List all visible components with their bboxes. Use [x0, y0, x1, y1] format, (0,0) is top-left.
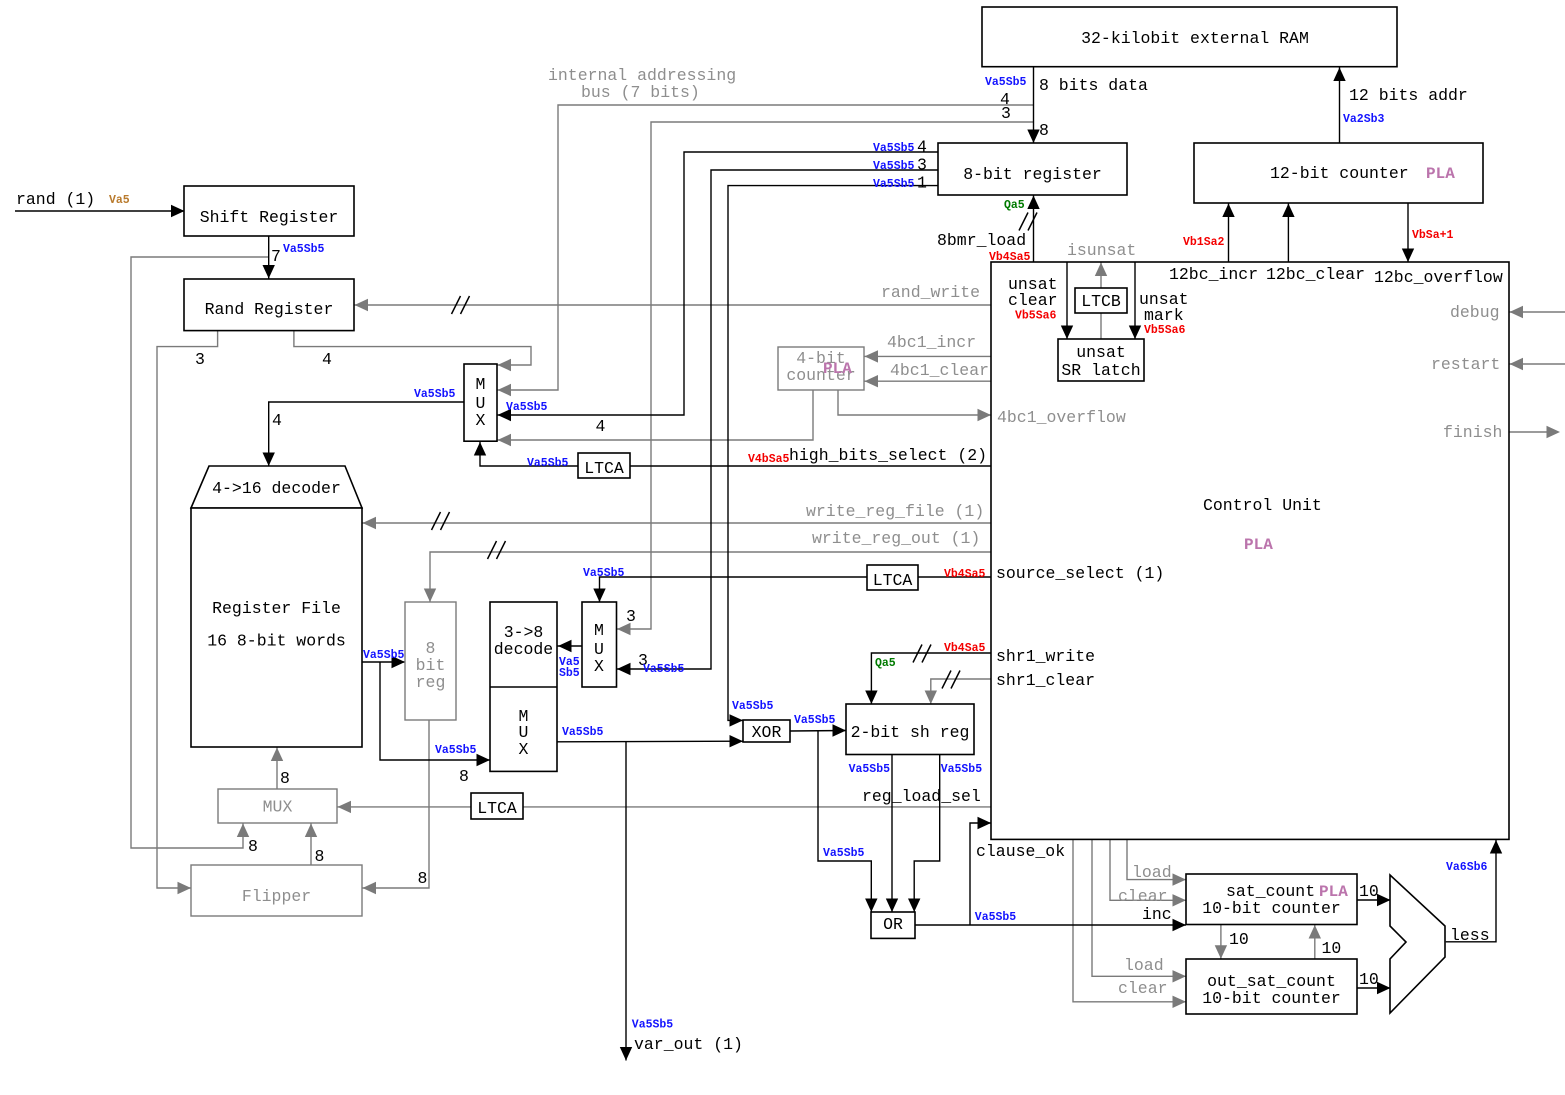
svg-text:10-bit counter: 10-bit counter	[1202, 989, 1341, 1008]
svg-text:Vb4Sa5: Vb4Sa5	[989, 251, 1031, 264]
svg-text:Vb5Sa6: Vb5Sa6	[1015, 310, 1057, 323]
svg-text:Vb1Sa2: Vb1Sa2	[1183, 236, 1225, 249]
svg-text:Sb5: Sb5	[559, 667, 580, 680]
svg-text:4: 4	[596, 417, 606, 436]
svg-text:mark: mark	[1144, 306, 1184, 325]
svg-text:Flipper: Flipper	[242, 887, 311, 906]
svg-text:less: less	[1450, 926, 1490, 945]
svg-text:4: 4	[322, 350, 332, 369]
svg-text:V4bSa5: V4bSa5	[748, 453, 790, 466]
svg-text:Va5Sb5: Va5Sb5	[414, 388, 456, 401]
svg-text:rand_write: rand_write	[881, 283, 980, 302]
svg-text:8-bit register: 8-bit register	[963, 165, 1102, 184]
svg-text:Shift Register: Shift Register	[200, 208, 339, 227]
svg-text:4bc1_overflow: 4bc1_overflow	[997, 408, 1126, 427]
svg-text:4bc1_incr: 4bc1_incr	[887, 333, 976, 352]
svg-text:LTCB: LTCB	[1081, 292, 1121, 311]
svg-text:Va5: Va5	[109, 194, 130, 207]
svg-text:inc: inc	[1142, 905, 1172, 924]
svg-text:4->16 decoder: 4->16 decoder	[212, 479, 341, 498]
svg-text:LTCA: LTCA	[477, 799, 517, 818]
svg-text:var_out (1): var_out (1)	[634, 1035, 743, 1054]
svg-text:write_reg_out (1): write_reg_out (1)	[812, 529, 980, 548]
svg-text:Va5Sb5: Va5Sb5	[506, 401, 548, 414]
svg-text:Va5Sb5: Va5Sb5	[941, 763, 983, 776]
svg-text:3: 3	[626, 607, 636, 626]
svg-text:3: 3	[1001, 104, 1011, 123]
svg-text:4: 4	[272, 411, 282, 430]
svg-text:Va5Sb5: Va5Sb5	[562, 726, 604, 739]
svg-text:PLA: PLA	[823, 360, 852, 378]
svg-text:Va5Sb5: Va5Sb5	[873, 178, 915, 191]
svg-text:XOR: XOR	[752, 723, 782, 742]
svg-text:Control Unit: Control Unit	[1203, 496, 1322, 515]
svg-text:isunsat: isunsat	[1067, 241, 1136, 260]
svg-text:PLA: PLA	[1244, 536, 1273, 554]
svg-text:clear: clear	[1118, 979, 1168, 998]
svg-text:32-kilobit external RAM: 32-kilobit external RAM	[1081, 29, 1309, 48]
svg-text:unsat: unsat	[1076, 343, 1126, 362]
svg-text:Vb4Sa5: Vb4Sa5	[944, 642, 986, 655]
svg-text:10: 10	[1359, 882, 1379, 901]
svg-text:LTCA: LTCA	[584, 459, 624, 478]
svg-text:8: 8	[315, 847, 325, 866]
svg-text:8: 8	[280, 769, 290, 788]
svg-text:X: X	[519, 740, 529, 759]
svg-text:restart: restart	[1431, 355, 1500, 374]
svg-text:8: 8	[418, 869, 428, 888]
svg-text:Rand Register: Rand Register	[205, 300, 334, 319]
svg-text:Register File: Register File	[212, 599, 341, 618]
svg-text:Va5Sb5: Va5Sb5	[632, 1019, 674, 1032]
svg-text:bus (7 bits): bus (7 bits)	[581, 83, 700, 102]
svg-text:M: M	[594, 621, 604, 640]
svg-text:shr1_clear: shr1_clear	[996, 671, 1095, 690]
svg-text:Va5Sb5: Va5Sb5	[849, 763, 891, 776]
svg-text:Va5Sb5: Va5Sb5	[794, 714, 836, 727]
svg-text:reg_load_sel: reg_load_sel	[862, 787, 981, 806]
svg-text:4: 4	[917, 138, 927, 157]
svg-text:2-bit sh reg: 2-bit sh reg	[851, 723, 970, 742]
svg-text:4bc1_clear: 4bc1_clear	[890, 361, 989, 380]
svg-text:3: 3	[195, 350, 205, 369]
svg-text:Va5Sb5: Va5Sb5	[363, 649, 405, 662]
svg-text:X: X	[476, 411, 486, 430]
svg-text:8 bits data: 8 bits data	[1039, 76, 1148, 95]
svg-text:Va6Sb6: Va6Sb6	[1446, 861, 1488, 874]
svg-text:Vb5Sa6: Vb5Sa6	[1144, 324, 1186, 337]
svg-text:X: X	[594, 657, 604, 676]
svg-text:rand (1): rand (1)	[16, 190, 95, 209]
svg-text:Va5Sb5: Va5Sb5	[527, 457, 569, 470]
svg-text:SR latch: SR latch	[1061, 361, 1140, 380]
svg-text:OR: OR	[883, 915, 903, 934]
svg-text:7: 7	[271, 247, 281, 266]
svg-text:Va5Sb5: Va5Sb5	[435, 744, 477, 757]
svg-text:M: M	[476, 375, 486, 394]
svg-text:decode: decode	[494, 640, 553, 659]
svg-text:Va2Sb3: Va2Sb3	[1343, 113, 1385, 126]
svg-text:10: 10	[1322, 939, 1342, 958]
svg-text:8: 8	[459, 767, 469, 786]
svg-text:finish: finish	[1443, 423, 1502, 442]
svg-text:load: load	[1132, 863, 1172, 882]
svg-text:write_reg_file (1): write_reg_file (1)	[806, 502, 984, 521]
svg-text:12bc_incr: 12bc_incr	[1169, 265, 1258, 284]
svg-text:12-bit counter: 12-bit counter	[1270, 164, 1409, 183]
svg-text:Va5Sb5: Va5Sb5	[583, 567, 625, 580]
svg-text:Qa5: Qa5	[875, 657, 896, 670]
svg-text:clear: clear	[1008, 291, 1058, 310]
svg-text:Va5Sb5: Va5Sb5	[643, 663, 685, 676]
svg-text:PLA: PLA	[1426, 165, 1455, 183]
svg-text:Qa5: Qa5	[1004, 199, 1025, 212]
svg-text:Va5Sb5: Va5Sb5	[823, 847, 865, 860]
svg-text:Va5Sb5: Va5Sb5	[732, 700, 774, 713]
svg-text:12 bits addr: 12 bits addr	[1349, 86, 1468, 105]
svg-text:10: 10	[1359, 970, 1379, 989]
svg-text:Va5Sb5: Va5Sb5	[985, 76, 1027, 89]
svg-text:3: 3	[917, 156, 927, 175]
svg-text:Va5Sb5: Va5Sb5	[873, 142, 915, 155]
svg-text:Va5Sb5: Va5Sb5	[975, 911, 1017, 924]
svg-text:shr1_write: shr1_write	[996, 647, 1095, 666]
svg-text:LTCA: LTCA	[873, 571, 913, 590]
svg-text:8: 8	[248, 837, 258, 856]
svg-text:load: load	[1124, 956, 1164, 975]
svg-text:MUX: MUX	[263, 798, 293, 817]
svg-text:Va5Sb5: Va5Sb5	[283, 243, 325, 256]
svg-text:10: 10	[1229, 930, 1249, 949]
svg-text:Va5Sb5: Va5Sb5	[873, 160, 915, 173]
svg-text:16 8-bit words: 16 8-bit words	[207, 632, 346, 651]
svg-text:10-bit counter: 10-bit counter	[1202, 899, 1341, 918]
svg-text:clear: clear	[1118, 887, 1168, 906]
svg-text:VbSa+1: VbSa+1	[1412, 229, 1454, 242]
svg-text:12bc_clear: 12bc_clear	[1266, 265, 1365, 284]
svg-text:1: 1	[917, 174, 927, 193]
svg-text:8: 8	[1039, 121, 1049, 140]
svg-text:Vb4Sa5: Vb4Sa5	[944, 568, 986, 581]
svg-text:8bmr_load: 8bmr_load	[937, 231, 1026, 250]
svg-text:clause_ok: clause_ok	[976, 842, 1065, 861]
svg-text:high_bits_select (2): high_bits_select (2)	[789, 446, 987, 465]
svg-text:debug: debug	[1450, 303, 1500, 322]
svg-text:source_select (1): source_select (1)	[996, 564, 1164, 583]
svg-text:reg: reg	[416, 673, 446, 692]
svg-text:12bc_overflow: 12bc_overflow	[1374, 268, 1503, 287]
